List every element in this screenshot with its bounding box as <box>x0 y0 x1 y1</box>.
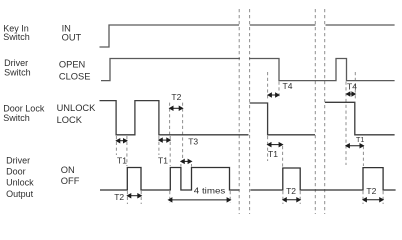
svg-text:Output: Output <box>6 189 34 199</box>
svg-text:T2: T2 <box>114 192 124 202</box>
svg-text:OUT: OUT <box>62 33 82 43</box>
svg-text:T3: T3 <box>188 137 198 147</box>
svg-text:Door: Door <box>6 167 26 177</box>
svg-text:T1: T1 <box>117 155 127 165</box>
svg-text:ON: ON <box>61 165 75 175</box>
svg-text:OPEN: OPEN <box>59 60 85 70</box>
svg-text:UNLOCK: UNLOCK <box>57 103 97 113</box>
svg-text:T2: T2 <box>366 186 376 196</box>
svg-text:CLOSE: CLOSE <box>59 71 91 81</box>
svg-text:OFF: OFF <box>61 176 80 186</box>
svg-text:T1: T1 <box>356 135 364 144</box>
svg-text:Unlock: Unlock <box>6 178 34 188</box>
svg-text:Door Lock: Door Lock <box>3 103 45 113</box>
svg-text:4 times: 4 times <box>194 185 226 195</box>
svg-text:Switch: Switch <box>3 32 30 42</box>
svg-text:T1: T1 <box>268 149 278 159</box>
svg-text:T2: T2 <box>171 92 181 102</box>
svg-text:Switch: Switch <box>4 67 31 77</box>
svg-text:LOCK: LOCK <box>57 115 83 125</box>
svg-text:Driver: Driver <box>6 156 30 166</box>
svg-text:T4: T4 <box>347 82 357 92</box>
svg-text:Switch: Switch <box>3 113 30 123</box>
svg-text:T2: T2 <box>286 186 296 196</box>
svg-text:T4: T4 <box>283 81 293 91</box>
svg-text:T1: T1 <box>158 155 168 165</box>
